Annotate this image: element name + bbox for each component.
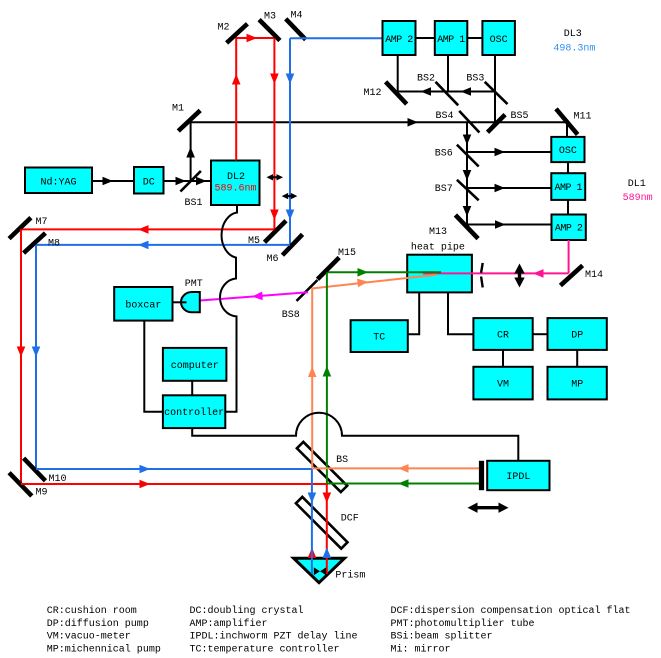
beam blue M6 to M8 <box>36 241 290 250</box>
beam orange BS8 to heat pipe <box>312 275 436 289</box>
svg-text:BS3: BS3 <box>466 74 484 85</box>
beam red M3 down to M5 <box>270 38 279 229</box>
wire BS7 to AMP1 right <box>467 184 551 193</box>
IPDL pusher bar <box>479 461 484 490</box>
svg-text:BS8: BS8 <box>282 310 300 321</box>
aperture dashes <box>481 263 483 288</box>
svg-text:DCF: DCF <box>341 514 359 525</box>
svg-text:BS: BS <box>336 455 348 466</box>
amplifier AMP 1 right <box>551 173 585 200</box>
svg-text:DL1: DL1 <box>628 179 646 190</box>
boxcar box <box>114 287 172 321</box>
label DL3 <box>553 29 595 55</box>
svg-text:DC:doubling crystal: DC:doubling crystal <box>190 605 304 617</box>
svg-text:M11: M11 <box>574 112 592 123</box>
mirror M11 <box>556 109 592 135</box>
beam pink M14 to heat pipe <box>423 269 569 278</box>
beam blue BS down through DCF to prism <box>308 469 317 574</box>
mirror M8 <box>24 233 60 253</box>
wire AMP1r-AMP2r <box>567 200 569 215</box>
svg-text:DP: DP <box>571 331 583 342</box>
svg-text:OSC: OSC <box>559 146 577 157</box>
label DL1 <box>623 179 653 204</box>
wire OSC top down to BS5 <box>494 55 496 122</box>
svg-text:Nd:YAG: Nd:YAG <box>40 177 76 189</box>
svg-text:controller: controller <box>164 407 224 419</box>
beam orange IPDL to BS <box>312 464 480 473</box>
wire DC to DL2 through BS1 <box>164 177 212 186</box>
wire AMP1-OSC <box>467 37 483 39</box>
beam green vertical BS to M15 <box>323 272 332 483</box>
svg-text:OSC: OSC <box>490 35 508 46</box>
beam red BS down through DCF to prism <box>323 484 332 574</box>
dye laser DL2 <box>211 161 260 206</box>
svg-text:PMT: PMT <box>185 279 203 290</box>
diffusion pump DP box <box>548 318 607 350</box>
wire BS6 to OSC right <box>467 148 551 157</box>
svg-text:MP: MP <box>571 380 583 391</box>
mirror M7 <box>9 217 47 239</box>
oscillator OSC right <box>551 137 584 162</box>
mirror M9 <box>9 473 47 499</box>
svg-text:VM:vacuo-meter: VM:vacuo-meter <box>47 632 131 643</box>
svg-text:M12: M12 <box>364 88 382 99</box>
prism <box>294 558 366 583</box>
wire M1 to M11 main line <box>191 118 567 127</box>
mirror M14 <box>560 265 603 285</box>
wire OSCr-AMP1r <box>567 162 569 173</box>
wire heat pipe leg to TC <box>408 292 419 334</box>
wire M13 to AMP2 right <box>467 220 552 229</box>
vacuo-meter VM box <box>473 367 532 400</box>
heat pipe oven box <box>407 242 472 293</box>
wire BS4 vertical down to M13 <box>463 122 472 227</box>
wire CR-DP <box>533 333 548 335</box>
svg-text:VM: VM <box>497 380 509 391</box>
svg-text:M3: M3 <box>264 12 276 23</box>
svg-text:CR: CR <box>497 331 509 342</box>
wire boxcar to PMT <box>173 301 187 303</box>
mirror M6 <box>267 234 303 265</box>
beam orange vertical BS to BS8 <box>308 289 317 469</box>
wire AMP1 top down <box>447 55 449 92</box>
beam splitter BS8 <box>282 280 318 321</box>
mirror M10 <box>24 458 67 485</box>
amplifier AMP 1 top <box>435 21 468 55</box>
optical flat DCF <box>296 497 359 549</box>
controller box <box>163 395 225 428</box>
svg-text:BS4: BS4 <box>436 111 454 122</box>
svg-text:BS2: BS2 <box>417 74 435 85</box>
beam splitter BS2 <box>417 74 458 106</box>
svg-text:M4: M4 <box>291 11 303 22</box>
mirror M15 <box>318 248 357 279</box>
wire BS1 to M1 <box>186 122 195 182</box>
mirror M2 <box>218 23 248 43</box>
beam splitter BS4 <box>436 111 480 133</box>
wire DP-MP <box>576 350 578 367</box>
svg-text:boxcar: boxcar <box>125 299 161 311</box>
wire CR-VM <box>502 350 504 367</box>
svg-text:Mi: mirror: Mi: mirror <box>391 643 451 655</box>
svg-text:DL3: DL3 <box>564 29 582 40</box>
svg-text:589nm: 589nm <box>623 193 653 204</box>
leftright translation arrow <box>468 503 509 513</box>
beam blue AMP2 to M4 <box>290 37 383 39</box>
svg-text:BS7: BS7 <box>435 184 453 195</box>
svg-text:M6: M6 <box>267 254 279 265</box>
cushion room CR box <box>473 318 532 350</box>
svg-text:M1: M1 <box>172 104 184 115</box>
wire heat pipe leg to CR <box>448 292 473 334</box>
beam splitter BS5 thick <box>488 111 529 132</box>
svg-text:IPDL:inchworm PZT delay line: IPDL:inchworm PZT delay line <box>190 631 358 643</box>
wire controller to DL2 with hop arcs <box>220 205 237 412</box>
beam splitter BS3 <box>466 74 507 105</box>
mirror M1 <box>172 104 200 132</box>
laser box Nd:YAG <box>25 168 92 194</box>
beam splitter BS6 <box>435 145 479 167</box>
beam splitter BS1 <box>180 171 202 209</box>
temperature controller TC box <box>351 320 408 352</box>
svg-text:AMP 2: AMP 2 <box>555 224 583 235</box>
mirror M13 <box>429 215 478 239</box>
mechanical pump MP box <box>548 367 607 400</box>
svg-text:M9: M9 <box>36 488 48 499</box>
wire M11 down to OSC right <box>566 122 568 137</box>
blue up arrow on red line above prism <box>323 548 332 559</box>
mirror M12 <box>364 82 407 104</box>
oscillator OSC top <box>482 21 515 55</box>
beam green IPDL to BS <box>327 479 480 488</box>
wire boxcar to controller <box>144 321 163 412</box>
computer box <box>163 348 227 381</box>
small leftright arrow on blue line near DL2 <box>282 193 298 199</box>
legend column 1 <box>47 605 161 655</box>
wire computer-controller <box>191 381 193 396</box>
svg-text:M8: M8 <box>48 239 60 250</box>
svg-text:AMP 2: AMP 2 <box>385 35 413 46</box>
wire Nd:YAG to DC <box>92 177 134 186</box>
beam green M15 to heat pipe <box>327 268 441 277</box>
updown translation arrow <box>514 264 524 288</box>
svg-text:DCF:dispersion compensation op: DCF:dispersion compensation optical flat <box>391 605 631 617</box>
beam magenta BS8 to PMT <box>200 292 308 301</box>
beam blue M8 down to M10 <box>32 245 41 469</box>
svg-text:AMP:amplifier: AMP:amplifier <box>190 618 268 630</box>
svg-text:M7: M7 <box>36 217 48 228</box>
svg-text:Prism: Prism <box>335 570 365 582</box>
svg-text:DL2: DL2 <box>227 172 245 183</box>
svg-text:BS5: BS5 <box>511 111 529 122</box>
amplifier AMP 2 top <box>383 21 416 55</box>
svg-text:AMP 1: AMP 1 <box>554 183 582 194</box>
beam splitter plate BS <box>297 442 348 492</box>
svg-text:PMT:photomultiplier tube: PMT:photomultiplier tube <box>391 618 535 630</box>
mirror M4 <box>286 11 306 40</box>
beam splitter BS7 <box>435 180 479 201</box>
svg-text:589.6nm: 589.6nm <box>214 184 256 195</box>
beam red DL2 up to M2 <box>232 34 275 161</box>
wire horizontal BS3-BS2-M12 <box>398 87 495 96</box>
prism bowtie mark <box>314 567 326 575</box>
beam red M7 down to M9 <box>17 229 26 484</box>
beam blue M10 to BS <box>36 465 312 474</box>
beam pink AMP2r down to M14 <box>568 240 570 273</box>
svg-text:M2: M2 <box>218 23 230 34</box>
beam blue M4 down to M6 <box>286 38 295 245</box>
delay line IPDL box <box>487 461 549 490</box>
mirror M3 <box>259 12 280 41</box>
svg-text:498.3nm: 498.3nm <box>553 44 595 55</box>
legend column 2 <box>190 605 358 655</box>
mirror M5 <box>248 221 286 247</box>
svg-text:M13: M13 <box>429 227 447 238</box>
svg-text:IPDL: IPDL <box>506 472 530 483</box>
svg-text:M15: M15 <box>338 248 356 259</box>
legend column 3 <box>391 605 631 655</box>
svg-text:DP:diffusion pump: DP:diffusion pump <box>47 618 149 630</box>
svg-text:BS1: BS1 <box>185 198 203 209</box>
red up arrow on blue line above prism <box>308 548 317 559</box>
svg-text:MP:michennical pump: MP:michennical pump <box>47 643 161 655</box>
wire AMP2 top down <box>397 55 399 93</box>
beam red M5 to M7 <box>21 225 275 234</box>
svg-text:M10: M10 <box>49 474 67 485</box>
svg-text:AMP 1: AMP 1 <box>437 35 465 46</box>
photomultiplier PMT <box>181 279 203 312</box>
wire AMP2-AMP1 <box>416 37 435 39</box>
svg-text:heat pipe: heat pipe <box>411 242 465 254</box>
amplifier AMP 2 right <box>552 215 586 241</box>
svg-text:TC:temperature controller: TC:temperature controller <box>190 643 340 655</box>
wire controller to IPDL with hop arc <box>192 413 518 461</box>
svg-text:DC: DC <box>143 178 155 189</box>
svg-text:M14: M14 <box>585 270 603 281</box>
svg-text:computer: computer <box>171 361 219 372</box>
svg-text:TC: TC <box>373 333 385 344</box>
svg-text:BS6: BS6 <box>435 149 453 160</box>
svg-text:CR:cushion room: CR:cushion room <box>47 605 137 617</box>
small leftright arrow on red line near DL2 <box>267 174 284 180</box>
svg-text:BSi:beam splitter: BSi:beam splitter <box>391 631 493 643</box>
beam red M9 to BS <box>21 480 328 489</box>
doubling crystal DC <box>134 167 164 194</box>
